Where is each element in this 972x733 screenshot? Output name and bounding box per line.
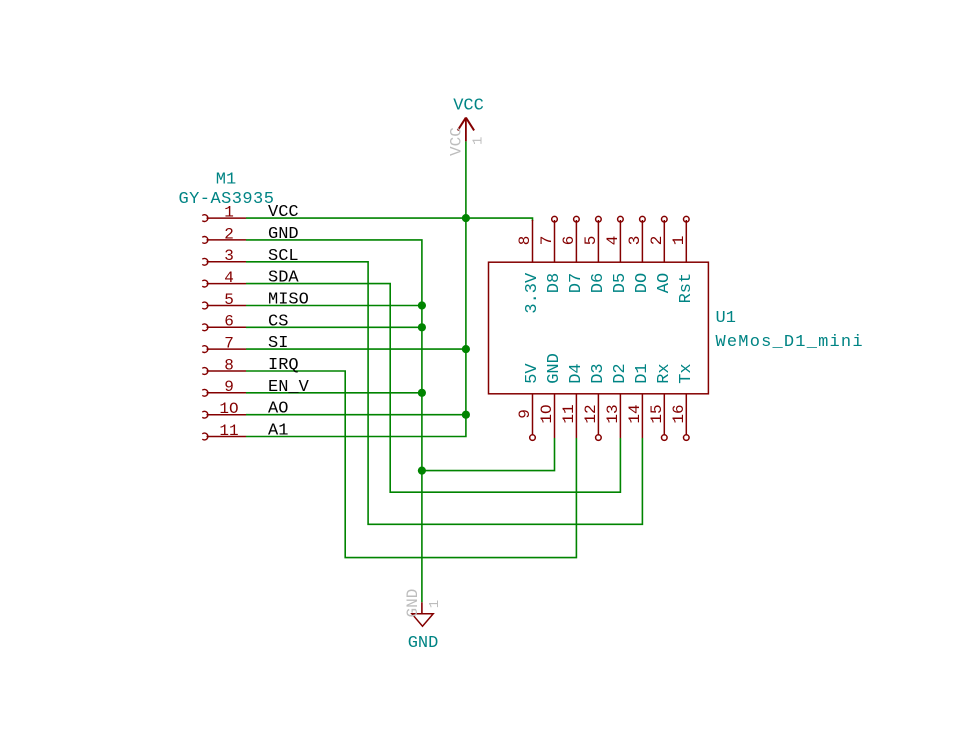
- svg-text:Rst: Rst: [677, 273, 696, 304]
- wire IRQ to U1 pin11 D4: [246, 371, 576, 558]
- svg-text:1: 1: [670, 236, 688, 246]
- connector M1 pin 5: [202, 302, 246, 309]
- connector M1 pin 3: [202, 258, 246, 265]
- U1 pin 5 (D6) top: [596, 216, 602, 262]
- connector M1 pin 4: [202, 280, 246, 287]
- wire SCL to U1 pin14 D1: [246, 262, 642, 525]
- junction GND rail / EN_V row: [418, 389, 426, 397]
- U1 pin 16 (Tx) bottom: [684, 394, 690, 441]
- svg-text:1O: 1O: [538, 404, 556, 423]
- svg-text:SCL: SCL: [268, 247, 299, 266]
- svg-text:14: 14: [626, 404, 644, 423]
- wire VCC row pin1 to U1 pin8: [246, 218, 533, 221]
- connector M1 pin 9: [202, 389, 246, 396]
- wire CS row to GND rail: [246, 326, 422, 328]
- svg-text:GND: GND: [268, 225, 299, 244]
- U1 pin 9 (5V) bottom: [530, 394, 536, 441]
- connector M1 pin 11: [202, 433, 246, 440]
- power symbol GND: [412, 602, 433, 626]
- svg-text:Rx: Rx: [655, 363, 674, 383]
- svg-text:4: 4: [604, 236, 622, 246]
- connector M1 pin 1: [202, 215, 246, 222]
- svg-text:EN_V: EN_V: [268, 378, 310, 397]
- svg-text:VCC: VCC: [453, 97, 484, 116]
- svg-text:D4: D4: [567, 363, 586, 383]
- svg-text:Tx: Tx: [677, 363, 696, 383]
- svg-text:WeMos_D1_mini: WeMos_D1_mini: [716, 333, 864, 352]
- svg-text:U1: U1: [716, 309, 736, 328]
- connector M1 pin 7: [202, 346, 246, 353]
- svg-text:5V: 5V: [523, 363, 542, 384]
- svg-text:MISO: MISO: [268, 291, 309, 310]
- wire EN_V row to GND rail: [246, 392, 422, 394]
- svg-text:1O: 1O: [219, 400, 238, 418]
- svg-text:8: 8: [224, 356, 234, 374]
- wire MISO row to GND rail: [246, 305, 422, 307]
- connector M1 pin 2: [202, 237, 246, 244]
- svg-text:5: 5: [582, 236, 600, 246]
- power symbol VCC: [458, 118, 474, 142]
- svg-text:SI: SI: [268, 334, 288, 353]
- svg-text:SDA: SDA: [268, 269, 299, 288]
- wire GND row pin2 down to GND symbol: [246, 240, 422, 602]
- svg-text:16: 16: [670, 404, 688, 423]
- svg-text:3: 3: [224, 247, 234, 265]
- svg-text:9: 9: [516, 409, 534, 419]
- svg-text:12: 12: [582, 404, 600, 423]
- svg-text:8: 8: [516, 236, 534, 246]
- junction VCC rail / SI row: [462, 345, 470, 353]
- svg-text:D6: D6: [589, 273, 608, 293]
- U1 pin 13 (D2) bottom: [619, 394, 621, 438]
- svg-text:7: 7: [538, 236, 556, 246]
- svg-text:IRQ: IRQ: [268, 356, 299, 375]
- U1 pin 3 (DO) top: [640, 216, 646, 262]
- wire SI row to VCC rail: [246, 348, 466, 350]
- svg-text:DO: DO: [633, 273, 652, 293]
- U1 pin 4 (D5) top: [618, 216, 624, 262]
- svg-text:9: 9: [224, 378, 234, 396]
- IC U1 body outline: [489, 262, 709, 394]
- svg-text:A1: A1: [268, 422, 288, 441]
- svg-text:D8: D8: [545, 273, 564, 293]
- U1 pin 12 (D3) bottom: [596, 394, 602, 441]
- svg-text:11: 11: [219, 422, 238, 440]
- svg-text:D1: D1: [633, 363, 652, 383]
- svg-text:D7: D7: [567, 273, 586, 293]
- svg-text:6: 6: [560, 236, 578, 246]
- wire VCC vertical rail down to A1 row: [246, 141, 466, 436]
- svg-text:AO: AO: [268, 400, 288, 419]
- connector M1 pin 6: [202, 324, 246, 331]
- svg-text:1: 1: [427, 600, 443, 608]
- svg-text:CS: CS: [268, 312, 288, 331]
- junction GND rail / MISO row: [418, 301, 426, 309]
- U1 pin 2 (AO) top: [662, 216, 668, 262]
- U1 pin 1 (Rst) top: [684, 216, 690, 262]
- U1 pin 15 (Rx) bottom: [662, 394, 668, 441]
- svg-text:D5: D5: [611, 273, 630, 293]
- wire SDA to U1 pin13 D2: [246, 284, 620, 493]
- U1 pin 6 (D7) top: [574, 216, 580, 262]
- svg-text:3.3V: 3.3V: [523, 272, 542, 314]
- svg-text:GND: GND: [404, 589, 422, 618]
- wire GND branch to U1 pin10: [422, 438, 555, 471]
- svg-text:M1: M1: [216, 171, 236, 190]
- svg-text:2: 2: [224, 225, 234, 243]
- svg-text:1: 1: [471, 137, 487, 145]
- junction VCC rail / A0 row: [462, 411, 470, 419]
- junction VCC rail / pin1 row: [462, 214, 470, 222]
- svg-text:4: 4: [224, 269, 234, 287]
- svg-text:6: 6: [224, 313, 234, 331]
- svg-text:AO: AO: [655, 273, 674, 293]
- svg-text:VCC: VCC: [448, 127, 466, 156]
- svg-text:D3: D3: [589, 363, 608, 383]
- svg-text:GY-AS3935: GY-AS3935: [179, 190, 275, 209]
- svg-text:2: 2: [648, 236, 666, 246]
- svg-text:D2: D2: [611, 363, 630, 383]
- connector M1 pin 8: [202, 368, 246, 375]
- svg-text:11: 11: [560, 404, 578, 423]
- connector M1 pin 1O: [202, 411, 246, 418]
- svg-text:3: 3: [626, 236, 644, 246]
- svg-text:15: 15: [648, 404, 666, 423]
- U1 pin 14 (D1) bottom: [641, 394, 643, 438]
- junction GND rail / pin10 branch: [418, 467, 426, 475]
- svg-text:5: 5: [224, 291, 234, 309]
- U1 pin 8 (3.3V) top: [532, 220, 534, 262]
- svg-text:GND: GND: [408, 634, 439, 653]
- junction GND rail / CS row: [418, 323, 426, 331]
- U1 pin 1O (GND) bottom: [554, 394, 556, 438]
- U1 pin 11 (D4) bottom: [575, 394, 577, 438]
- svg-text:7: 7: [224, 335, 234, 353]
- U1 pin 7 (D8) top: [552, 216, 558, 262]
- svg-text:13: 13: [604, 404, 622, 423]
- wire A0 row to VCC rail: [246, 414, 466, 416]
- svg-text:GND: GND: [545, 353, 564, 384]
